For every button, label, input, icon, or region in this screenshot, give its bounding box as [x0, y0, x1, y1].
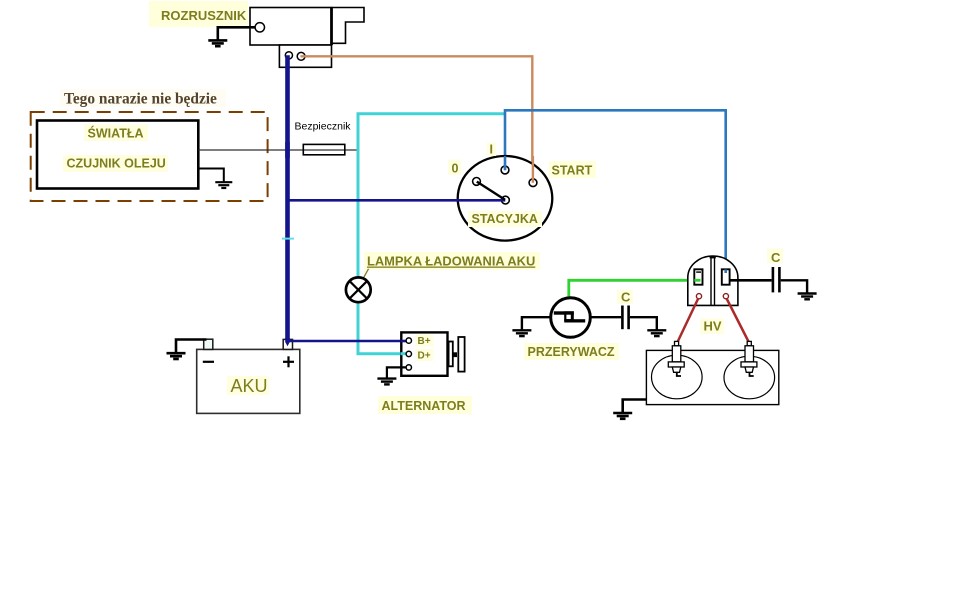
- label glow START: [549, 161, 596, 178]
- svg-text:LAMPKA ŁADOWANIA AKU: LAMPKA ŁADOWANIA AKU: [367, 254, 535, 269]
- wire oil box to fuse to cyan: [198, 149, 357, 151]
- ground C2: [798, 294, 817, 300]
- label glow HV: [700, 319, 724, 335]
- svg-text:CZUJNIK OLEJU: CZUJNIK OLEJU: [67, 157, 166, 171]
- ignition switch STACYJKA body: [458, 156, 553, 241]
- lights/oil solid box: [37, 121, 198, 189]
- alternator terminal ground: [406, 365, 411, 370]
- wire breaker left to ground: [522, 317, 551, 329]
- wire cyan stub into alternator: [401, 352, 407, 355]
- label glow PRZERYWACZ: [524, 343, 619, 360]
- svg-text:AKU: AKU: [231, 376, 268, 396]
- svg-text:B+: B+: [418, 336, 431, 347]
- engine / spark plug box: [646, 350, 778, 404]
- wire alternator to ground: [387, 367, 406, 377]
- wire coil to capacitor C2: [730, 279, 772, 282]
- wire engine box to ground: [623, 400, 647, 413]
- svg-text:ALTERNATOR: ALTERNATOR: [382, 399, 466, 413]
- svg-text:Tego narazie nie będzie: Tego narazie nie będzie: [64, 91, 217, 108]
- wire capacitor C2 to ground: [781, 280, 807, 292]
- coil left terminal: [694, 269, 702, 284]
- spark plug 2: [741, 341, 757, 372]
- capacitor C1: [622, 306, 628, 330]
- coil divider: [710, 257, 712, 305]
- wire battery minus to ground: [176, 340, 207, 353]
- starter sub terminal B: [297, 52, 305, 60]
- wire navy stub into alternator: [401, 340, 407, 343]
- svg-text:START: START: [552, 164, 593, 178]
- green wire end inside terminal: [694, 279, 700, 282]
- wire navy into plus tab: [285, 338, 290, 342]
- wire HT lead right: [727, 299, 750, 344]
- svg-text:STACYJKA: STACYJKA: [472, 212, 538, 226]
- starter tab: [332, 8, 365, 44]
- svg-text:I: I: [490, 143, 493, 157]
- battery AKU body: [197, 349, 300, 413]
- ignition coil HV body: [688, 256, 738, 305]
- wire navy to stacyjka center: [290, 199, 506, 202]
- alternator pulley link: [453, 352, 457, 357]
- alternator pulley outer: [458, 337, 464, 372]
- svg-text:ŚWIATŁA: ŚWIATŁA: [88, 126, 144, 141]
- cylinder 1: [652, 355, 703, 399]
- label glow LAMPKA: [364, 252, 540, 270]
- stacyjka pin I: [501, 166, 509, 174]
- starter sub box: [279, 45, 331, 67]
- label glow D+: [416, 349, 434, 361]
- alternator terminal D+: [406, 351, 411, 356]
- label glow SWIATLA: [84, 125, 148, 142]
- breaker PRZERYWACZ body: [551, 298, 591, 338]
- wire starter ground: [218, 27, 255, 39]
- label glow C1: [617, 290, 633, 305]
- stacyjka pin START: [529, 179, 537, 187]
- blue wire end inside terminal: [724, 270, 727, 274]
- wire blue to pin I and HV: [505, 110, 726, 273]
- battery terminal plus tab: [283, 339, 292, 349]
- svg-text:ROZRUSZNIK: ROZRUSZNIK: [161, 8, 247, 23]
- svg-text:C: C: [621, 290, 631, 305]
- ground engine: [613, 413, 632, 419]
- alternator pulley inner: [449, 342, 453, 367]
- alternator body: [401, 332, 447, 375]
- svg-text:Bezpiecznik: Bezpiecznik: [295, 121, 352, 133]
- svg-text:HV: HV: [704, 319, 722, 334]
- ground starter: [208, 40, 227, 46]
- fuse Bezpiecznik: [303, 144, 345, 154]
- label glow Tego narazie: [60, 89, 226, 107]
- wire navy thick vertical (battery feed): [285, 55, 290, 342]
- starter body right thick edge: [330, 8, 333, 46]
- ground oil box: [215, 182, 232, 188]
- ground C1: [647, 330, 666, 336]
- wire cyan fuse to lamp to alternator D+: [358, 114, 504, 354]
- cylinder 2: [724, 356, 775, 399]
- breaker points icon: [554, 311, 585, 322]
- capacitor C2: [773, 267, 780, 292]
- wire navy arrow into battery: [285, 342, 290, 347]
- label glow STACYJKA: [468, 211, 542, 227]
- starter sub terminal A: [285, 52, 292, 59]
- label glow ALTERNATOR: [378, 396, 472, 414]
- svg-text:0: 0: [452, 162, 459, 176]
- svg-text:C: C: [771, 250, 781, 265]
- wire navy battery to alternator B+: [290, 340, 407, 343]
- coil HT towers: [696, 294, 701, 299]
- wire oil box to ground: [198, 169, 224, 182]
- svg-text:PRZERYWACZ: PRZERYWACZ: [528, 345, 615, 359]
- wire HT lead left: [677, 299, 698, 344]
- dashed future box: [31, 112, 268, 201]
- coil right terminal: [722, 269, 730, 284]
- label glow AKU: [227, 376, 269, 395]
- svg-text:D+: D+: [418, 351, 431, 362]
- wire green breaker to HV coil: [569, 280, 698, 298]
- ground battery: [167, 353, 186, 359]
- starter body: [250, 8, 332, 46]
- lamp leader line: [362, 269, 369, 282]
- ground breaker: [512, 330, 531, 336]
- ground alternator: [377, 379, 396, 385]
- wire navy overdraw at fuse crossing: [285, 142, 290, 158]
- label glow 0: [448, 160, 461, 176]
- junction cyan tick on navy wire: [282, 238, 294, 240]
- wire orange tail to START pin: [532, 156, 534, 183]
- lamp X: [350, 281, 367, 298]
- wire orange starter to START pin: [301, 56, 533, 179]
- wire blue tail to pin I: [504, 156, 507, 170]
- label glow CZUJNIK OLEJU: [63, 155, 168, 172]
- charge lamp: [346, 277, 371, 302]
- battery plus sign: [283, 356, 294, 367]
- battery terminal minus tab: [204, 339, 213, 349]
- spark plug 1: [668, 341, 684, 372]
- label glow I: [487, 143, 496, 157]
- stacyjka pin 0: [473, 178, 481, 186]
- battery minus sign: [203, 361, 214, 363]
- wire breaker right to capacitor: [590, 316, 621, 318]
- stacyjka center pin: [502, 196, 510, 204]
- starter terminal circle: [255, 23, 264, 32]
- alternator terminal B+: [406, 338, 411, 343]
- label glow C2: [767, 249, 783, 264]
- wire capacitor C1 to ground: [630, 317, 657, 329]
- label glow ROZRUSZNIK: [149, 1, 248, 27]
- stacyjka lever: [477, 182, 505, 200]
- label glow B+: [416, 335, 434, 347]
